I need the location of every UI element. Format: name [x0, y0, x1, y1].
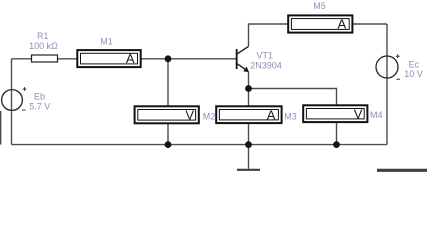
svg-text:A: A [338, 17, 347, 32]
svg-text:VT1: VT1 [257, 50, 274, 60]
svg-text:M5: M5 [313, 1, 326, 11]
svg-text:M3: M3 [284, 111, 297, 121]
svg-text:M1: M1 [100, 37, 113, 47]
svg-text:2N3904: 2N3904 [250, 60, 282, 70]
svg-text:A: A [267, 107, 276, 122]
svg-text:M4: M4 [370, 110, 383, 120]
svg-text:100 kΩ: 100 kΩ [29, 41, 58, 51]
svg-text:M2: M2 [203, 111, 216, 121]
svg-text:Ec: Ec [409, 60, 420, 70]
svg-text:10 V: 10 V [404, 69, 423, 79]
svg-text:Eb: Eb [34, 91, 45, 101]
svg-text:5.7 V: 5.7 V [29, 102, 50, 112]
svg-text:V: V [354, 106, 363, 121]
svg-text:R1: R1 [37, 31, 49, 41]
svg-text:A: A [126, 51, 135, 66]
svg-text:V: V [185, 107, 194, 122]
